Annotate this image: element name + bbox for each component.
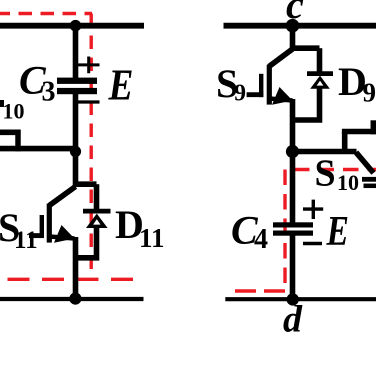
node: right top junction dot	[286, 19, 300, 33]
diode D9 cathode bar	[307, 71, 333, 76]
red dashed current path, right cell horizontal through S10	[294, 168, 376, 171]
svg-text:9: 9	[363, 78, 376, 108]
cut letter fragment at left edge	[0, 100, 4, 107]
wire: left mid horizontal into node	[0, 146, 76, 152]
diode D11 triangle	[86, 214, 108, 228]
wire: left vertical, capacitor to mid node	[73, 94, 79, 152]
diode D11 branch bottom	[75, 227, 97, 258]
capacitor C4 plates	[273, 222, 313, 227]
wire: left vertical emitter to bottom bus	[73, 237, 79, 299]
diode D9 branch top	[317, 48, 323, 72]
wire: D10 branch connector vertical	[342, 132, 348, 152]
IGBT S9 body bar	[267, 65, 272, 105]
red dashed current path, right cell vertical	[283, 170, 286, 292]
svg-text:3: 3	[42, 77, 56, 108]
minus sign of C4	[303, 242, 322, 245]
IGBT S11 emitter arrow	[54, 225, 75, 243]
IGBT S11 gate bar	[40, 215, 44, 238]
red dashed current path, left cell bottom	[8, 278, 134, 281]
wire: right vertical capacitor to bottom bus	[290, 235, 296, 299]
svg-text:11: 11	[139, 223, 165, 253]
svg-text:10: 10	[3, 99, 25, 124]
node: right mid junction dot	[286, 145, 299, 158]
svg-text:4: 4	[254, 224, 268, 255]
diode D11 cathode bar	[83, 209, 111, 214]
svg-text:E: E	[326, 209, 349, 255]
wire: left top bus	[0, 23, 144, 29]
IGBT S9 emitter arrow	[272, 87, 293, 105]
diode D9 branch bottom	[293, 89, 320, 121]
wire: right top bus	[224, 23, 376, 29]
IGBT S9 gate lead	[247, 92, 264, 97]
svg-text:d: d	[283, 298, 303, 340]
IGBT S11 gate lead	[29, 233, 44, 238]
wire: left vertical mid node down and bend to diode branch	[76, 152, 97, 185]
diode D11 branch top	[94, 184, 100, 209]
IGBT S11 collector lead	[49, 187, 75, 206]
plus sign of C3	[78, 57, 100, 74]
minus sign of C3	[78, 100, 100, 103]
wire: left stub gate lead	[0, 130, 18, 136]
wire: D10 branch horizontal to edge	[342, 129, 376, 135]
IGBT S11 body bar	[47, 204, 52, 243]
node: left bottom junction dot	[69, 293, 81, 305]
capacitor C3 plates	[57, 78, 97, 84]
wire: left bottom bus	[0, 297, 144, 301]
red dashed current path, left cell right side vertical	[89, 14, 92, 277]
wire: right vertical down and bend to diode D9 branch	[293, 26, 320, 49]
gate bar fragment at right edge	[371, 120, 376, 134]
wire: right vertical, emitter through mid node to capacitor	[290, 99, 296, 223]
wire: right bottom bus	[225, 297, 376, 301]
IGBT S9 gate bar	[259, 74, 263, 97]
node: right bottom junction dot	[287, 293, 299, 305]
diode D9 triangle	[310, 76, 330, 89]
svg-text:E: E	[108, 61, 134, 109]
node: left top junction dot	[70, 20, 82, 32]
wire: left vertical, top bus to capacitor	[73, 26, 79, 79]
IGBT S10 gate bar (rotated)	[364, 184, 376, 189]
IGBT S9 collector lead	[269, 49, 293, 67]
IGBT S10 body bar (rotated)	[362, 177, 376, 182]
wire: right mid horizontal to S10	[293, 149, 357, 155]
node: left mid junction dot	[70, 146, 81, 157]
gate bar of cut-off switch left	[15, 130, 21, 152]
IGBT S9 emitter lead	[269, 99, 292, 101]
IGBT S11 emitter lead	[49, 237, 74, 239]
svg-text:11: 11	[14, 227, 38, 254]
svg-text:9: 9	[234, 81, 246, 107]
svg-text:S: S	[315, 153, 336, 195]
plus sign of C4	[303, 200, 323, 219]
red dashed current path, left cell top	[0, 12, 92, 15]
red dashed current path, right cell bottom	[230, 289, 285, 292]
svg-text:10: 10	[337, 170, 359, 195]
IGBT S10 collector lead (rotated, cut off)	[356, 152, 374, 173]
